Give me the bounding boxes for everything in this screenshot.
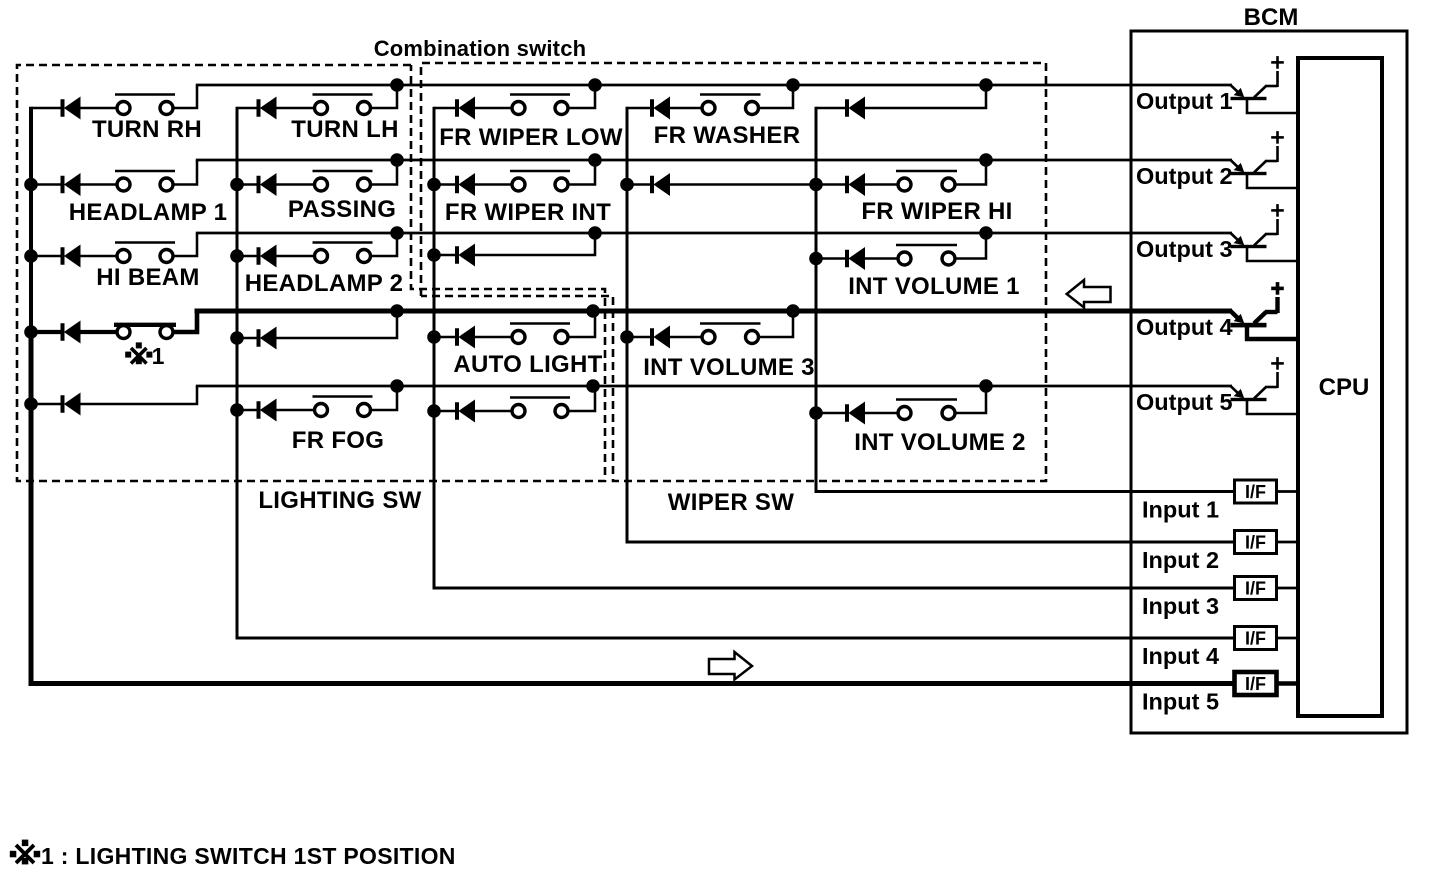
diode (AUTO LIGHT) xyxy=(434,326,475,349)
junction col2 row4 / bold bus row 4 xyxy=(390,304,404,318)
label Input 2 xyxy=(1142,547,1219,573)
wire base of Output 3 transistor to CPU xyxy=(1247,247,1298,261)
wire col5 vertical feed + Input 1 wire xyxy=(816,107,1236,492)
transistor Output 5 driver xyxy=(1231,357,1284,401)
svg-text:FR WIPER LOW: FR WIPER LOW xyxy=(439,124,623,151)
label TURN LH xyxy=(291,116,398,143)
junction col2 row4 / col2 feed xyxy=(230,331,244,345)
label FR WIPER INT xyxy=(445,199,611,226)
wire INT VOLUME 2 output riser xyxy=(955,386,987,413)
I/F box Input 5 xyxy=(1235,672,1277,695)
wire bold bus row 4 to Output 4 xyxy=(195,309,1233,314)
wire INT VOLUME 1 output riser xyxy=(955,233,987,259)
junction col3 row3 / bus row 3 xyxy=(588,226,602,240)
svg-text:I/F: I/F xyxy=(1245,533,1266,553)
label FR WASHER xyxy=(654,122,801,149)
label PASSING xyxy=(288,196,396,223)
diode (col3 row3, to Output 3 bus) xyxy=(434,244,475,267)
diode (lighting switch 1st position, bold) xyxy=(31,321,81,344)
junction link diode / col5 feed xyxy=(809,178,823,192)
wire col1 vertical feed (bold lower part, lighting sw 1st position path) xyxy=(29,330,34,687)
svg-text:I/F: I/F xyxy=(1245,629,1266,649)
label CPU xyxy=(1319,374,1370,401)
wire HEADLAMP 1 output riser xyxy=(173,160,198,185)
svg-text:Output 1: Output 1 xyxy=(1136,88,1233,114)
svg-text:TURN RH: TURN RH xyxy=(92,116,202,143)
svg-text:Input 2: Input 2 xyxy=(1142,547,1219,573)
junction HEADLAMP 2 / bus row 3 xyxy=(390,226,404,240)
svg-text:HI BEAM: HI BEAM xyxy=(96,264,199,291)
switch AUTO LIGHT contacts xyxy=(474,324,570,344)
label TURN RH xyxy=(92,116,202,143)
wire FR WIPER HI output riser xyxy=(955,160,987,185)
junction INT VOLUME 1 / bus row 3 xyxy=(979,226,993,240)
svg-text:BCM: BCM xyxy=(1244,4,1299,31)
switch FR WIPER INT contacts xyxy=(474,171,570,191)
wire bus row 5 to Output 5 xyxy=(196,385,1232,388)
wire PASSING output riser xyxy=(370,160,397,185)
wire col3 row3 diode output riser xyxy=(474,233,595,255)
diode (FR WIPER HI) xyxy=(816,173,865,196)
wire col1 row5 diode output riser xyxy=(80,386,198,404)
label HEADLAMP 2 xyxy=(245,270,404,297)
wire col5 row1 diode output riser xyxy=(864,85,986,108)
switch HEADLAMP 1 contacts xyxy=(80,171,176,191)
wire base of Output 2 transistor to CPU xyxy=(1247,174,1298,188)
label Combination switch xyxy=(374,36,587,61)
label AUTO LIGHT xyxy=(453,351,602,378)
label WIPER SW xyxy=(668,489,794,516)
junction PASSING / col2 feed xyxy=(230,178,244,192)
wire FR WIPER INT output riser xyxy=(568,160,596,185)
svg-text:PASSING: PASSING xyxy=(288,196,396,223)
wire base of Output 4 transistor to CPU xyxy=(1247,325,1298,339)
svg-text:1 : LIGHTING SWITCH 1ST POSITI: 1 : LIGHTING SWITCH 1ST POSITION xyxy=(41,843,456,869)
junction TURN LH / bus row 1 xyxy=(390,78,404,92)
switch FR FOG contacts xyxy=(276,397,373,417)
label Output 4 xyxy=(1136,314,1233,340)
wire bold bottom feed to Input 5 xyxy=(29,681,1237,686)
label FR WIPER LOW xyxy=(439,124,623,151)
wire base of Output 5 transistor to CPU xyxy=(1247,400,1298,414)
transistor Output 2 driver xyxy=(1231,131,1284,175)
I/F box Input 1 xyxy=(1235,480,1277,503)
box CPU xyxy=(1298,58,1382,716)
junction INT VOLUME 3 / col4 feed xyxy=(620,330,634,344)
wire col2 row4 diode output riser xyxy=(276,311,398,338)
junction INT VOLUME 2 / col5 feed xyxy=(809,406,823,420)
svg-text:Combination switch: Combination switch xyxy=(374,36,587,61)
diode (INT VOLUME 2) xyxy=(816,402,865,425)
junction FR WIPER LOW / bus row 1 xyxy=(588,78,602,92)
label INT VOLUME 1 xyxy=(848,273,1020,300)
diode (FR WIPER INT) xyxy=(434,173,475,196)
wire Input 5 I/F to CPU xyxy=(1277,681,1299,685)
label HEADLAMP 1 xyxy=(69,199,228,226)
diode (col1 row5, to Output 5 bus) xyxy=(31,393,81,416)
wire col3 row5 output riser xyxy=(568,386,596,411)
label BCM xyxy=(1244,4,1299,31)
junction col5 row1 / bus row 1 xyxy=(979,78,993,92)
label Input 5 xyxy=(1142,689,1219,715)
svg-text:HEADLAMP 2: HEADLAMP 2 xyxy=(245,270,404,297)
junction INT VOLUME 1 / col5 feed xyxy=(809,252,823,266)
note ※1 : LIGHTING SWITCH 1ST POSITION xyxy=(10,840,456,869)
wire Input 4 I/F to CPU xyxy=(1277,637,1299,640)
dashed box LIGHTING SW (combination switch, lighting section) xyxy=(17,65,605,481)
label FR WIPER HI xyxy=(861,198,1012,225)
switch lighting sw 1st position contacts (closed) xyxy=(80,325,177,339)
svg-text:1: 1 xyxy=(152,343,165,369)
junction col3 row5 / bus row 5 xyxy=(586,379,600,393)
wire col1 vertical feed (thin upper part) xyxy=(29,107,33,332)
wire Input 3 I/F to CPU xyxy=(1277,587,1299,590)
label Input 1 xyxy=(1142,497,1219,523)
wire AUTO LIGHT output riser xyxy=(568,311,596,337)
diode (col2 row4, to Output 4 bus) xyxy=(237,327,277,350)
junction 1st position / col1 feed xyxy=(24,325,38,339)
svg-text:Input 3: Input 3 xyxy=(1142,593,1219,619)
junction col3 row5 / col3 feed xyxy=(427,404,441,418)
wire 1st position output riser (bold) xyxy=(173,309,198,332)
wire bus row 3 to Output 3 xyxy=(196,232,1232,235)
svg-text:Output 5: Output 5 xyxy=(1136,389,1233,415)
svg-text:WIPER SW: WIPER SW xyxy=(668,489,794,516)
switch HI BEAM contacts xyxy=(80,243,176,263)
junction FR WIPER INT / bus row 2 xyxy=(588,153,602,167)
wire HEADLAMP 2 output riser xyxy=(370,233,397,256)
switch PASSING contacts xyxy=(276,171,373,191)
junction FR FOG / bus row 5 xyxy=(390,379,404,393)
transistor Output 3 driver xyxy=(1231,204,1284,248)
diode (col5 row1, to Output 1 bus) xyxy=(816,97,865,120)
svg-text:Output 4: Output 4 xyxy=(1136,314,1233,340)
junction AUTO LIGHT / col3 feed xyxy=(427,330,441,344)
diode (TURN RH) xyxy=(31,97,81,120)
wire FR WASHER output riser xyxy=(758,85,793,108)
diode (TURN LH) xyxy=(237,97,277,120)
arrow current flow (right, along bold feed) xyxy=(709,652,752,680)
diode (FR FOG) xyxy=(237,399,277,422)
svg-text:AUTO LIGHT: AUTO LIGHT xyxy=(453,351,602,378)
svg-text:HEADLAMP 1: HEADLAMP 1 xyxy=(69,199,228,226)
diode (INT VOLUME 3) xyxy=(627,326,670,349)
label INT VOLUME 2 xyxy=(854,429,1026,456)
svg-text:INT VOLUME 3: INT VOLUME 3 xyxy=(643,354,815,381)
diode (PASSING) xyxy=(237,173,277,196)
junction INT VOLUME 3 / bold bus row 4 xyxy=(786,304,800,318)
switch INT VOLUME 3 contacts xyxy=(669,324,761,344)
switch FR WIPER HI contacts xyxy=(864,171,957,191)
diode (FR WASHER) xyxy=(627,97,670,120)
svg-text:Input 4: Input 4 xyxy=(1142,643,1219,669)
svg-text:Output 3: Output 3 xyxy=(1136,236,1233,262)
switch col3 row5 contacts xyxy=(474,398,570,418)
label Input 3 xyxy=(1142,593,1219,619)
svg-text:I/F: I/F xyxy=(1245,482,1266,502)
junction link diode / col4 feed xyxy=(620,178,634,192)
svg-text:FR WASHER: FR WASHER xyxy=(654,122,801,149)
junction col3 row3 diode / col3 feed xyxy=(427,248,441,262)
wire bus row 1 to Output 1 xyxy=(196,84,1232,87)
switch FR WIPER LOW contacts xyxy=(474,95,570,115)
diode (col4-col5 link row 2) xyxy=(627,173,670,196)
wire Input 1 I/F to CPU xyxy=(1277,490,1299,493)
junction FR FOG / col2 feed xyxy=(230,403,244,417)
junction FR WIPER INT / col3 feed xyxy=(427,178,441,192)
wire col3 vertical feed + Input 3 wire xyxy=(434,107,1236,588)
label ※1 reference xyxy=(125,342,164,369)
arrow current flow (left, into wiper sw) xyxy=(1067,280,1111,308)
diode (HEADLAMP 2) xyxy=(237,245,277,268)
wire FR FOG output riser xyxy=(370,386,397,410)
wire col2 vertical feed + Input 4 wire xyxy=(237,107,1236,638)
switch TURN RH contacts xyxy=(80,95,176,115)
svg-text:Input 5: Input 5 xyxy=(1142,689,1219,715)
svg-text:I/F: I/F xyxy=(1245,674,1266,694)
junction HEADLAMP 2 / col2 feed xyxy=(230,249,244,263)
wire TURN LH output riser xyxy=(370,85,397,108)
dashed box WIPER SW (combination switch, wiper section) xyxy=(421,63,1046,481)
junction col1 row5 / col1 feed xyxy=(24,397,38,411)
wire bus row 2 to Output 2 xyxy=(196,159,1232,162)
svg-text:FR WIPER HI: FR WIPER HI xyxy=(861,198,1012,225)
junction HEADLAMP 1 / col1 feed xyxy=(24,178,38,192)
svg-text:INT VOLUME 2: INT VOLUME 2 xyxy=(854,429,1026,456)
label Output 2 xyxy=(1136,163,1233,189)
wire col4 row2 diode output to col5 feed xyxy=(669,183,816,186)
svg-text:Input 1: Input 1 xyxy=(1142,497,1219,523)
svg-text:I/F: I/F xyxy=(1245,579,1266,599)
switch FR WASHER contacts xyxy=(669,95,761,115)
label HI BEAM xyxy=(96,264,199,291)
diode (col3 row5 switch) xyxy=(434,400,475,423)
junction FR WASHER / bus row 1 xyxy=(786,78,800,92)
diode (FR WIPER LOW) xyxy=(434,97,475,120)
wire TURN RH output riser xyxy=(173,85,198,108)
transistor Output 1 driver xyxy=(1231,56,1284,100)
svg-text:INT VOLUME 1: INT VOLUME 1 xyxy=(848,273,1020,300)
switch INT VOLUME 2 contacts xyxy=(864,400,957,420)
label LIGHTING SW xyxy=(258,487,421,514)
I/F box Input 2 xyxy=(1235,531,1277,554)
junction PASSING / bus row 2 xyxy=(390,153,404,167)
label INT VOLUME 3 xyxy=(643,354,815,381)
wire INT VOLUME 3 output riser xyxy=(758,311,793,337)
junction FR WIPER HI / bus row 2 xyxy=(979,153,993,167)
junction HI BEAM / col1 feed xyxy=(24,249,38,263)
svg-text:FR WIPER INT: FR WIPER INT xyxy=(445,199,611,226)
wire base of Output 1 transistor to CPU xyxy=(1247,99,1298,113)
diode (HI BEAM) xyxy=(31,245,81,268)
svg-text:Output 2: Output 2 xyxy=(1136,163,1233,189)
label Output 3 xyxy=(1136,236,1233,262)
label Output 1 xyxy=(1136,88,1233,114)
label FR FOG xyxy=(292,427,384,454)
transistor Output 4 driver (bold) xyxy=(1231,282,1284,327)
junction AUTO LIGHT / bold bus row 4 xyxy=(586,304,600,318)
svg-text:TURN LH: TURN LH xyxy=(291,116,398,143)
wire Input 2 I/F to CPU xyxy=(1277,541,1299,544)
box BCM xyxy=(1131,31,1407,733)
switch HEADLAMP 2 contacts xyxy=(276,243,373,263)
I/F box Input 4 xyxy=(1235,627,1277,650)
wire HI BEAM output riser xyxy=(173,233,198,256)
I/F box Input 3 xyxy=(1235,577,1277,600)
wire col4 vertical feed + Input 2 wire xyxy=(627,107,1236,542)
label Input 4 xyxy=(1142,643,1219,669)
junction INT VOLUME 2 / bus row 5 xyxy=(979,379,993,393)
wire FR WIPER LOW output riser xyxy=(568,85,596,108)
label Output 5 xyxy=(1136,389,1233,415)
svg-text:FR FOG: FR FOG xyxy=(292,427,384,454)
diode (HEADLAMP 1) xyxy=(31,173,81,196)
svg-text:LIGHTING SW: LIGHTING SW xyxy=(258,487,421,514)
switch INT VOLUME 1 contacts xyxy=(864,245,957,265)
switch TURN LH contacts xyxy=(276,95,373,115)
diode (INT VOLUME 1) xyxy=(816,247,865,270)
svg-text:CPU: CPU xyxy=(1319,374,1370,401)
